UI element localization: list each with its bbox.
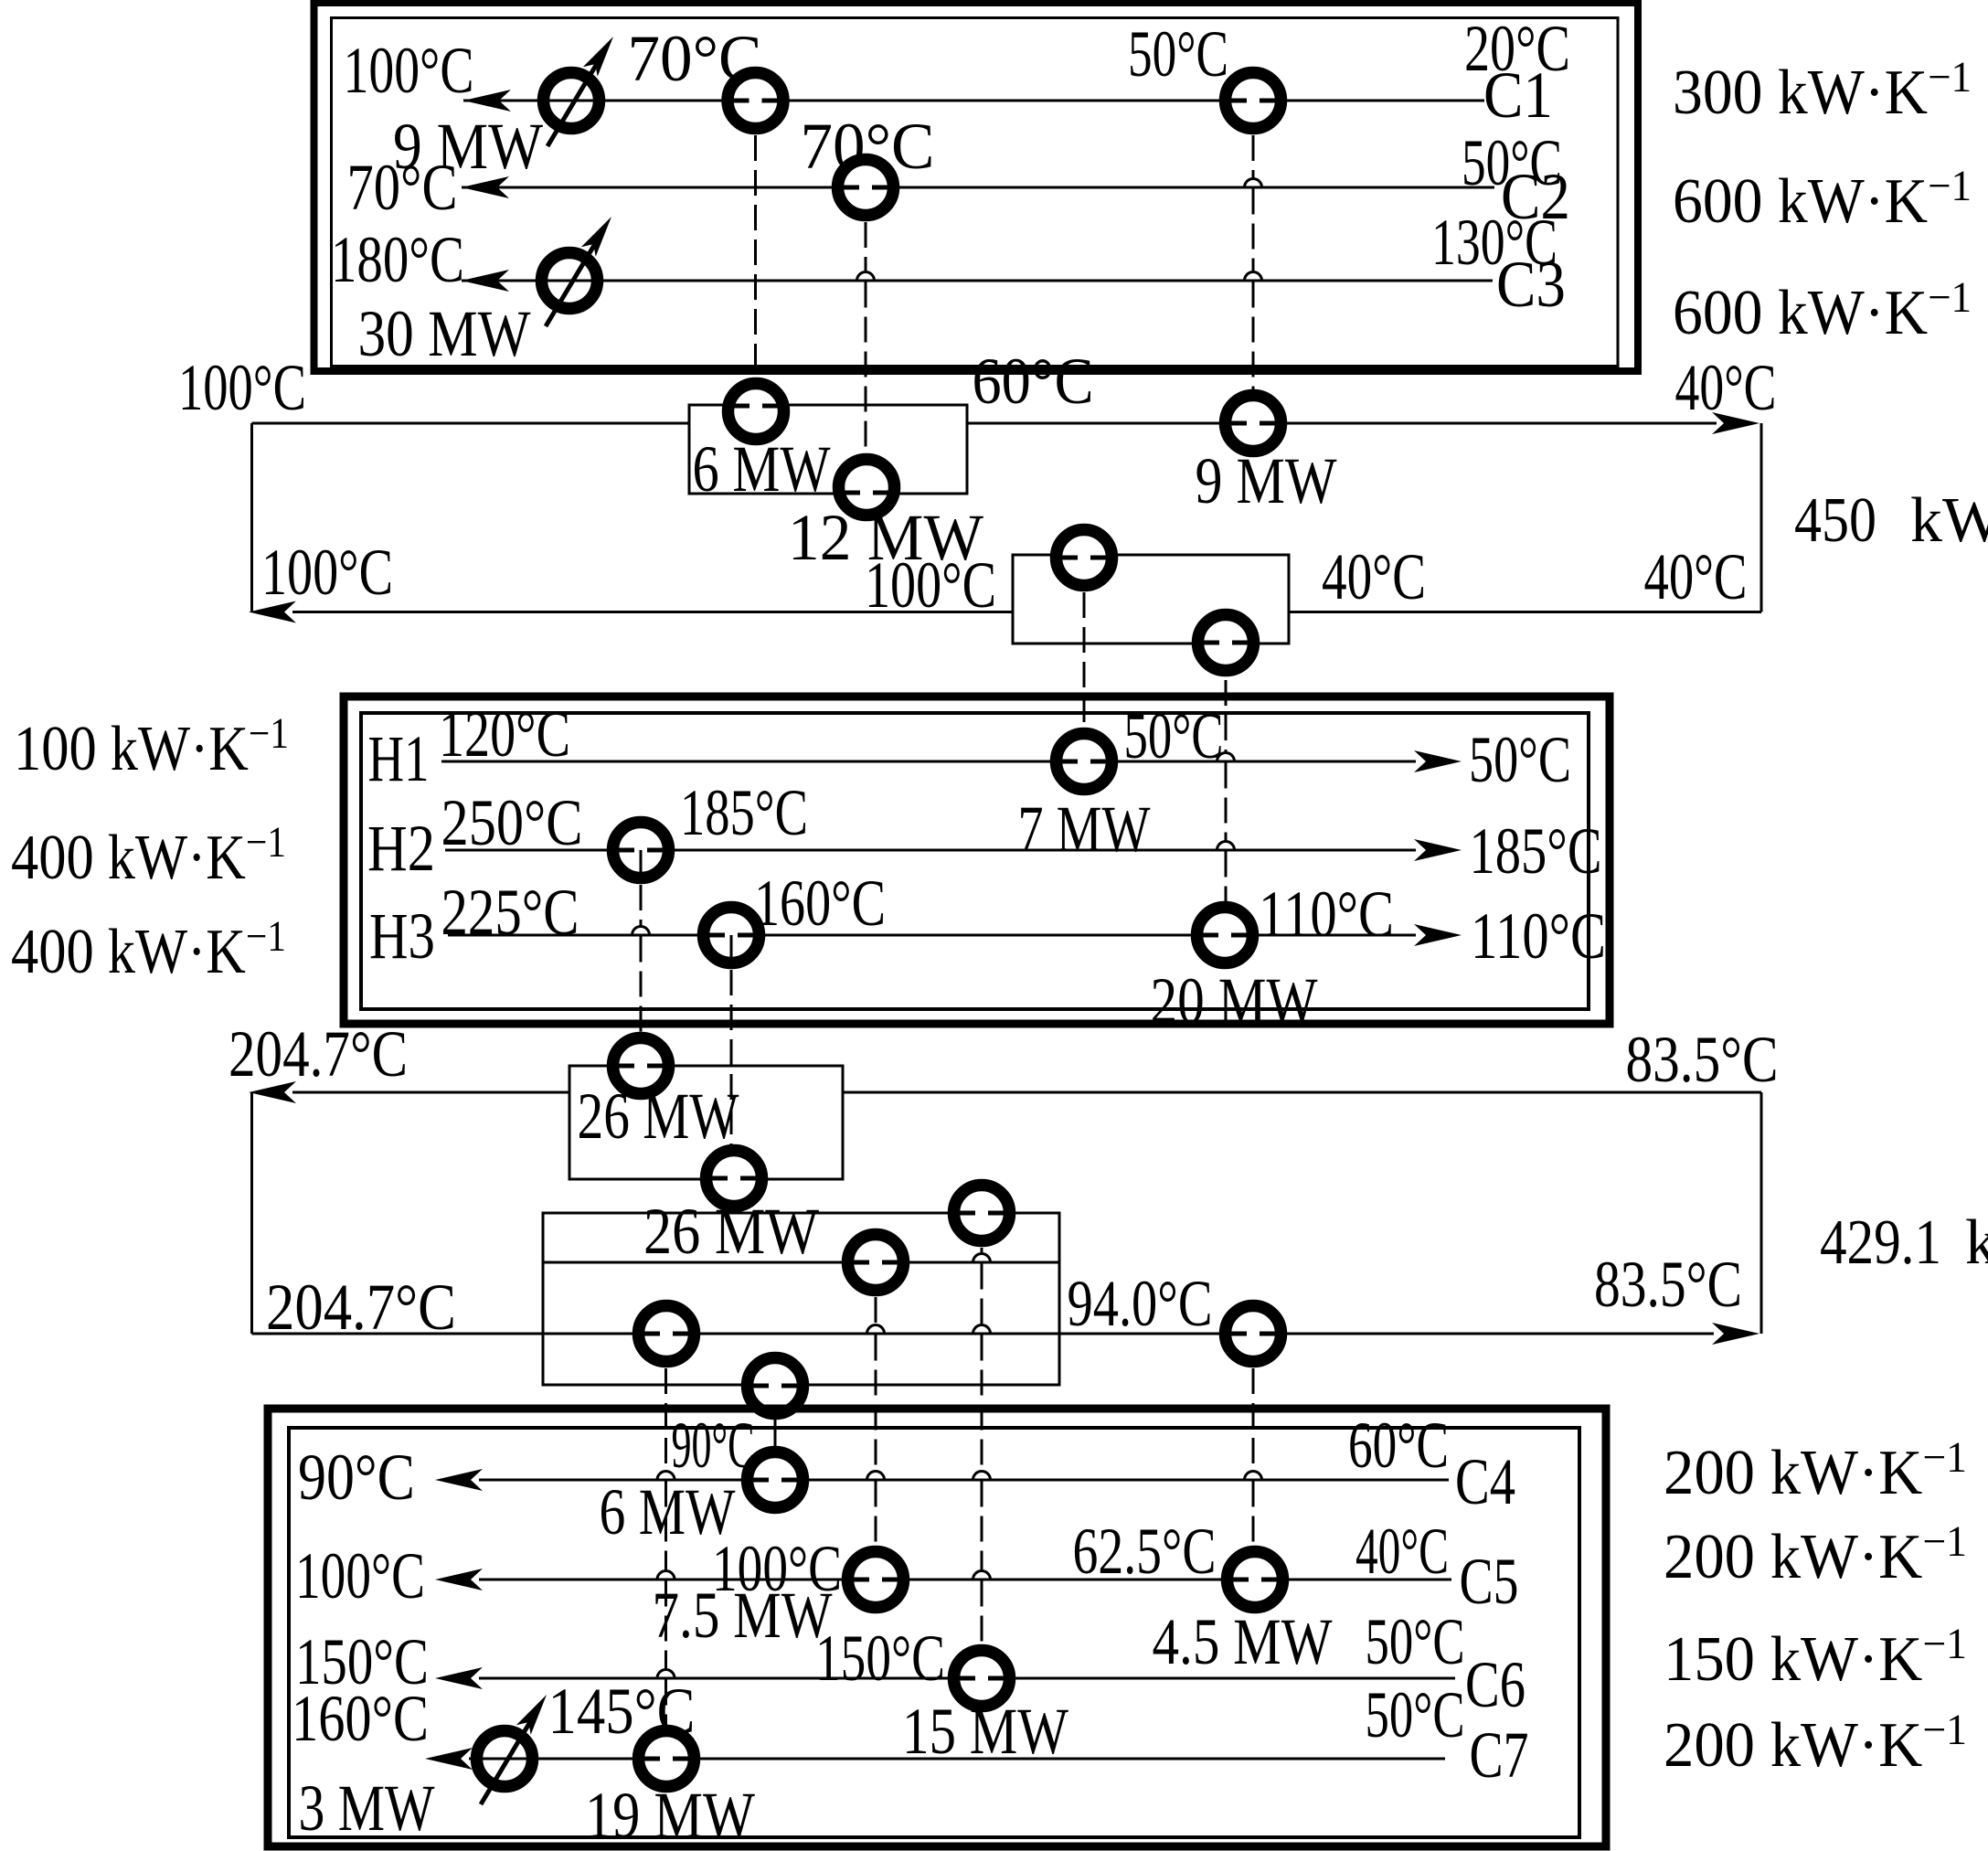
stream H3 line [448,934,1416,937]
loop2 bottom line right arrowhead [1712,1323,1759,1345]
stream C4 line [479,1479,1449,1482]
svg-text:100°C: 100°C [295,1539,425,1612]
exchanger circle on loop2 line (4.5 MW partner) [1226,1306,1281,1362]
loop2 top line left arrowhead [249,1081,296,1103]
exchanger circle 15 MW on C6 [954,1651,1010,1707]
wire H3-exchanger to box3 bottom circle [730,935,733,1178]
svg-text:H2: H2 [367,812,435,885]
svg-text:225°C: 225°C [441,876,579,949]
svg-text:204.7°C: 204.7°C [266,1271,456,1344]
svg-text:83.5°C: 83.5°C [1594,1248,1742,1321]
svg-text:kW·K−1: kW·K−1 [1965,1203,1988,1278]
exchanger circle 70C on C1 (6 MW partner) [728,73,783,129]
loop2 left vertical [250,1092,253,1334]
svg-text:100°C: 100°C [178,351,306,424]
svg-text:100 kW·K−1: 100 kW·K−1 [14,709,289,784]
svg-text:7 MW: 7 MW [1018,793,1151,866]
exchanger circle 7.5 MW on C5 [848,1552,904,1608]
svg-text:450: 450 [1794,485,1876,556]
exchanger circle 12 MW (loop1) [839,460,895,516]
top plant box outer border [314,3,1639,371]
exchanger circle on box4 internal (7.5 MW partner) [848,1235,904,1291]
svg-text:12 MW: 12 MW [788,501,983,574]
svg-text:62.5°C: 62.5°C [1073,1515,1217,1588]
exchanger circle on box4 top (15 MW partner) [954,1186,1010,1241]
svg-text:40°C: 40°C [1322,540,1426,613]
exchanger circle 6 MW on C4 [748,1452,803,1508]
stream C1 line [463,100,1484,102]
stream C2 line [462,186,1494,189]
exchanger circle on C2 (12 MW partner) [838,160,894,216]
middle plant box inner border [361,713,1589,1009]
wire C1-exchanger to 6 MW unit [754,101,757,409]
svg-text:H1: H1 [368,722,430,795]
svg-text:160°C: 160°C [754,867,886,940]
stream C5 left arrowhead [435,1569,483,1590]
exchanger circle 50C on C1 (9 MW partner) [1226,73,1281,129]
svg-text:50°C: 50°C [1469,723,1571,796]
svg-text:9 MW: 9 MW [1196,444,1337,517]
stream C2 left arrowhead [462,176,509,198]
svg-text:40°C: 40°C [1355,1515,1449,1588]
wire box4-internal circle to 7.5 MW exchanger [875,1262,877,1325]
wire box4-line circle to 19 MW exchanger [664,1334,667,1472]
exchanger circle 9 MW (loop1) [1226,396,1281,452]
box4 internal header line [543,1261,1059,1264]
svg-text:70°C: 70°C [347,151,458,224]
svg-text:6 MW: 6 MW [693,432,831,505]
exchanger circle 4.5 MW on C5 [1228,1552,1283,1608]
loop1 right vertical [1760,423,1763,612]
heater on C7 (3 MW) [477,1731,533,1787]
exchanger unit box 1 (6+12 MW) [689,405,967,494]
middle plant box outer border [344,697,1610,1024]
svg-text:400 kW·K−1: 400 kW·K−1 [11,912,286,987]
bottom plant box outer border [268,1409,1606,1846]
svg-text:94.0°C: 94.0°C [1068,1267,1213,1340]
loop2 bottom line [252,1333,1715,1335]
svg-text:C4: C4 [1455,1445,1515,1518]
svg-text:50°C: 50°C [1366,1605,1465,1678]
exchanger circle 160C on H3 [704,908,760,963]
loop1 bottom line left arrowhead [249,601,296,623]
loop2 right vertical [1760,1092,1763,1334]
top plant box inner border [332,18,1619,367]
svg-text:50°C: 50°C [1124,699,1224,772]
loop1 top line right segment [967,422,1717,425]
svg-text:200 kW·K−1: 200 kW·K−1 [1664,1706,1967,1781]
svg-text:90°C: 90°C [298,1441,415,1514]
exchanger circle 19 MW on C7 [639,1731,695,1787]
svg-text:150°C: 150°C [815,1622,945,1695]
loop1 top line right arrowhead [1712,412,1759,434]
exchanger group box 3 (26 MW) [569,1066,843,1179]
wire C1-50C-exchanger to 9 MW unit [1252,101,1255,179]
svg-text:400 kW·K−1: 400 kW·K−1 [11,818,286,893]
loop1 left vertical [250,423,253,612]
stream C6 line [479,1677,1455,1680]
svg-text:20 MW: 20 MW [1151,964,1318,1037]
stream C3 line [462,280,1493,282]
svg-text:204.7°C: 204.7°C [229,1017,408,1090]
svg-text:90°C: 90°C [672,1409,755,1482]
wire loop2 circle to 4.5 MW exchanger [1252,1334,1255,1472]
wire box4-bottom circle to 6 MW exchanger [774,1386,777,1480]
exchanger circle 185C on H2 [613,823,669,878]
svg-text:50°C: 50°C [1128,17,1228,90]
stream C7 left arrowhead [425,1748,473,1770]
stream C6 left arrowhead [435,1667,483,1689]
stream C1 left arrowhead [463,90,511,112]
svg-text:600 kW·K−1: 600 kW·K−1 [1673,273,1972,348]
svg-text:300 kW·K−1: 300 kW·K−1 [1673,53,1972,128]
wire box2-bottom circle to 20 MW exchanger [1225,645,1228,753]
exchanger circle on box2 top (7 MW partner) [1057,530,1112,586]
wire box4-top circle to 15 MW exchanger [981,1213,983,1254]
exchanger circle 20 MW on H3 [1197,908,1253,963]
exchanger circle on box3 top [613,1038,669,1094]
svg-text:83.5°C: 83.5°C [1626,1023,1779,1096]
loop1 bottom line left segment [292,611,1013,613]
svg-text:C1: C1 [1483,59,1553,132]
svg-text:160°C: 160°C [292,1682,429,1755]
svg-text:C5: C5 [1460,1545,1519,1618]
stream H3 right arrowhead [1414,924,1462,946]
svg-text:40°C: 40°C [1644,540,1748,613]
loop1 bottom line right segment [1289,611,1761,613]
stream C7 line [469,1758,1445,1761]
svg-text:120°C: 120°C [439,697,570,771]
svg-text:3 MW: 3 MW [299,1771,435,1845]
svg-text:100°C: 100°C [261,536,393,609]
loop1 top line left segment [252,422,690,425]
loop2 top line left segment [292,1091,569,1094]
svg-text:40°C: 40°C [1675,351,1777,424]
svg-text:C6: C6 [1465,1648,1526,1721]
exchanger unit box 2 [1013,555,1289,644]
svg-text:110°C: 110°C [1259,878,1394,951]
stream H1 right arrowhead [1414,750,1462,772]
exchanger circle on loop2 line in box4 (19 MW partner) [639,1306,695,1362]
svg-text:200 kW·K−1: 200 kW·K−1 [1664,1517,1967,1592]
stream H2 line [445,849,1416,852]
svg-text:185°C: 185°C [1470,814,1602,888]
svg-text:180°C: 180°C [331,223,464,296]
svg-text:429.1: 429.1 [1820,1207,1941,1278]
svg-text:200 kW·K−1: 200 kW·K−1 [1664,1433,1967,1508]
heater on C3 (30 MW) [542,253,598,309]
wire H2-exchanger to box3 top circle [640,850,643,927]
svg-text:C7: C7 [1470,1718,1529,1792]
svg-text:4.5 MW: 4.5 MW [1153,1605,1333,1678]
svg-text:110°C: 110°C [1471,899,1606,973]
svg-text:kW·K−1: kW·K−1 [1910,481,1988,556]
svg-text:250°C: 250°C [441,786,583,859]
stream C5 line [479,1579,1451,1581]
exchanger circle on box3 bottom [707,1151,762,1207]
svg-text:60°C: 60°C [1348,1409,1449,1482]
exchanger circle 6 MW (loop1) [728,384,784,440]
exchanger circle 7 MW on H1 [1057,734,1112,790]
svg-text:H3: H3 [369,899,435,973]
svg-text:60°C: 60°C [973,345,1094,418]
heater on C1 (9 MW) [544,73,600,129]
svg-text:50°C: 50°C [1366,1678,1465,1751]
bottom plant box inner border [289,1428,1579,1837]
exchanger circle on box2 bottom (20 MW partner) [1198,615,1254,671]
svg-text:150 kW·K−1: 150 kW·K−1 [1664,1620,1967,1695]
wire C2-exchanger to 12 MW unit [865,187,867,272]
stream H2 right arrowhead [1414,839,1462,861]
stream C3 left arrowhead [462,270,509,292]
exchanger circle on box4 bottom (6 MW partner) [748,1358,803,1414]
svg-text:100°C: 100°C [344,34,474,107]
stream C4 left arrowhead [435,1469,483,1491]
svg-text:185°C: 185°C [680,776,808,849]
exchanger group box 4 (26 MW) [543,1213,1059,1385]
svg-text:C3: C3 [1496,248,1566,321]
loop2 top line right segment [843,1091,1761,1094]
svg-text:600 kW·K−1: 600 kW·K−1 [1673,162,1972,237]
svg-text:7.5 MW: 7.5 MW [653,1579,833,1652]
stream H1 line [441,761,1416,763]
svg-text:30 MW: 30 MW [358,297,531,370]
wire box2-top circle to 7 MW exchanger [1083,558,1086,761]
